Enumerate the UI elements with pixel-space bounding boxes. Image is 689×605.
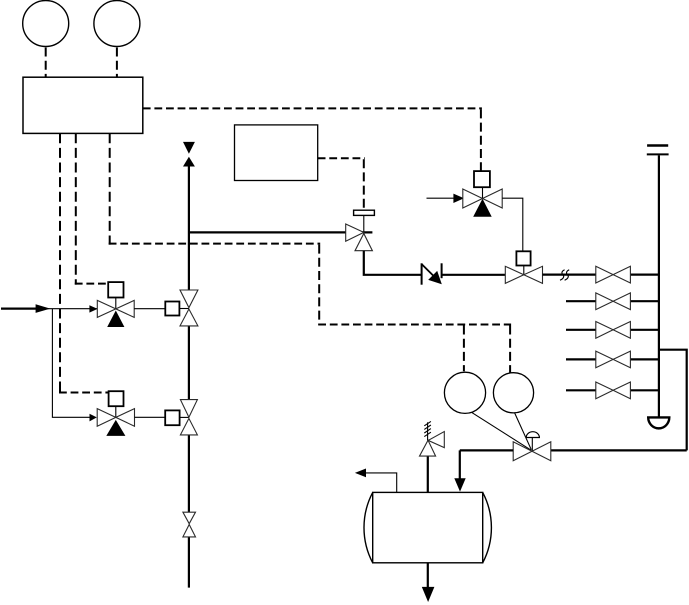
- square S3: [165, 410, 179, 425]
- pipe check valve to valve V5: [442, 274, 506, 276]
- thin line to valve V1: [47, 308, 97, 310]
- instrument circle PI-2: [94, 1, 140, 47]
- square S1b: [165, 302, 179, 316]
- relief valve spring: [424, 421, 431, 440]
- instrument circle PI-1: [23, 1, 69, 47]
- branch pipe 5: [566, 389, 659, 391]
- gate valve G4: [596, 351, 631, 368]
- pipe V3 down and right to check valve: [364, 251, 422, 275]
- signal line controller out1 to valve V2: [59, 133, 61, 393]
- arrow A3 into valve V2: [90, 414, 97, 422]
- arrow A2 into valve V1: [89, 305, 97, 312]
- valve V2 actuator square: [109, 391, 124, 406]
- arrow A5 left: [355, 469, 366, 478]
- main horizontal pipe: [189, 231, 373, 233]
- right header pipe: [658, 155, 660, 416]
- flow arrow hourglass at top of riser: [183, 142, 195, 167]
- squiggle break symbol: [560, 270, 569, 280]
- wire C3 to valve V6: [472, 412, 532, 450]
- bar actuator above valve V3: [354, 210, 375, 215]
- controller box U1: [23, 77, 143, 133]
- valve V1 three-way body: [97, 300, 134, 327]
- valve V2 stem: [115, 406, 117, 417]
- gate valve G3: [596, 322, 631, 339]
- wire V2 to square S3: [135, 416, 166, 418]
- check valve: [422, 263, 442, 284]
- vessel left outlet wire and arrow: [366, 473, 397, 493]
- drain cup: [648, 417, 669, 428]
- wire V4 right then down to valve V5: [502, 198, 523, 250]
- valve V6 stem: [531, 438, 533, 451]
- vent symbol top right: [647, 146, 669, 155]
- controller box U2: [235, 125, 318, 181]
- wire C4 to valve V6: [515, 413, 532, 450]
- branch wire down to valve V2: [52, 309, 90, 418]
- wire V1 to square S1b: [134, 308, 165, 310]
- riser gate valve VV3 small: [183, 512, 196, 537]
- valve V2 three-way body: [97, 409, 134, 436]
- relief valve stand pipe: [427, 456, 429, 492]
- riser gate valve VV2: [180, 400, 197, 435]
- pipe V5 to header: [543, 274, 659, 276]
- arrow A7 down: [422, 587, 435, 602]
- inlet pipe left with arrow: [1, 308, 38, 310]
- valve V1 stem: [115, 298, 117, 310]
- branch pipe 3: [566, 329, 659, 331]
- valve V4 stem: [482, 187, 484, 198]
- pipe header branch to far right and down to valve V6: [551, 350, 687, 451]
- arrow A6 into vessel: [454, 478, 465, 491]
- wire S1b to riser valve: [179, 308, 189, 310]
- vessel body: [364, 492, 491, 562]
- gate valve G1: [596, 266, 631, 283]
- arrow A1: [36, 304, 51, 313]
- arrow line into valve V4: [427, 197, 456, 199]
- valve V5 stem: [523, 265, 525, 275]
- riser gate valve VV1: [180, 290, 198, 326]
- valve V4 actuator square: [474, 171, 490, 187]
- gate valve G5: [596, 382, 631, 399]
- transmitter circle C4: [493, 373, 533, 413]
- riser pipe segments: [188, 167, 190, 588]
- signal line controller right to valve V4 actuator: [143, 107, 482, 109]
- gate valve G2: [596, 293, 631, 310]
- valve V3 angle body: [346, 224, 373, 251]
- branch pipe 2: [566, 300, 659, 302]
- vessel bottom outlet: [427, 563, 429, 588]
- valve V4 three-way body: [463, 189, 502, 217]
- signal line circle1 to controller: [45, 48, 47, 78]
- pipe V6 left to vessel inlet: [460, 450, 513, 479]
- valve V3 stem: [363, 215, 365, 232]
- signal line controller out2 to valve V1: [75, 133, 77, 284]
- valve V5 actuator square: [516, 251, 530, 265]
- signal line circle2 to controller: [116, 48, 118, 78]
- signal line controller out3 to transmitter circles: [109, 133, 111, 244]
- transmitter circle C3: [444, 372, 485, 413]
- branch pipe 4: [566, 358, 659, 360]
- valve V1 actuator square: [108, 282, 123, 297]
- valve V5 body: [505, 266, 542, 283]
- signal line U2 to bar actuator: [318, 157, 365, 159]
- valve V6 dome actuator: [526, 432, 539, 438]
- valve V6 body: [513, 442, 551, 461]
- signal line drop to circle C3: [463, 326, 465, 372]
- arrow A4: [453, 194, 464, 203]
- wire S3 to riser valve: [180, 416, 189, 418]
- relief valve body: [420, 432, 445, 457]
